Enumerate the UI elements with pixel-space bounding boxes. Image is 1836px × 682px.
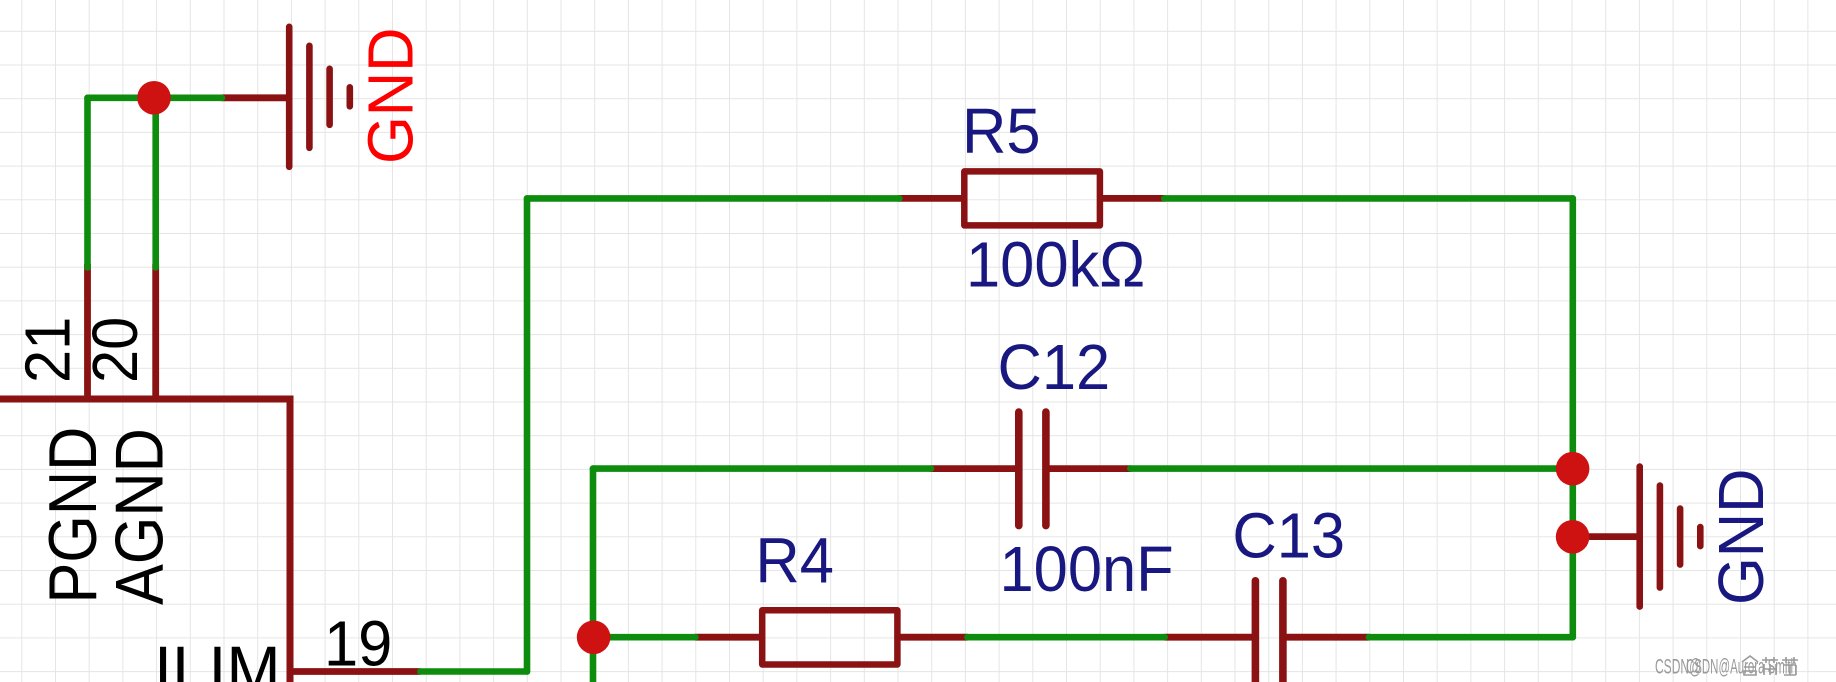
- pin 21: [84, 264, 91, 403]
- svg-text:AGND: AGND: [100, 428, 177, 605]
- pin 20: [152, 264, 159, 403]
- wire C12 left branch: [593, 469, 931, 682]
- wire from pin 19 up to R5: [420, 198, 899, 671]
- resistor R5: [899, 171, 1164, 225]
- watermark CSDN: [1655, 654, 1797, 679]
- svg-text:20: 20: [80, 317, 151, 383]
- svg-text:21: 21: [13, 317, 84, 383]
- svg-text:ILIM: ILIM: [154, 633, 281, 682]
- svg-text:100nF: 100nF: [1000, 534, 1174, 605]
- watermark CJK glyph 1: [1742, 656, 1758, 675]
- capacitor C13: [1165, 581, 1369, 682]
- resistor R4: [695, 610, 967, 664]
- wire R4 left: [594, 634, 696, 641]
- svg-text:C13: C13: [1232, 500, 1345, 571]
- wire C12 right to junction: [1130, 465, 1572, 472]
- svg-text:100kΩ: 100kΩ: [966, 229, 1145, 300]
- wire from R5 right to GND junction: [1164, 198, 1573, 637]
- watermark CJK glyph 2: [1762, 657, 1778, 675]
- junction dot right lower: [1556, 520, 1590, 554]
- svg-text:R4: R4: [755, 525, 834, 596]
- svg-text:PGND: PGND: [34, 427, 111, 604]
- junction dot R4 left: [577, 621, 611, 655]
- svg-text:19: 19: [324, 608, 392, 679]
- power symbol GND (top left): [222, 27, 350, 167]
- power symbol GND (right): [1589, 467, 1700, 607]
- svg-text:GND: GND: [1706, 468, 1777, 605]
- junction dot top left: [137, 81, 171, 115]
- watermark CJK glyph 3: [1782, 657, 1798, 675]
- svg-text:GND: GND: [355, 27, 426, 164]
- capacitor C12: [931, 412, 1130, 526]
- svg-text:C12: C12: [998, 332, 1111, 403]
- pin 19: [290, 668, 420, 675]
- wire net GND top: [88, 98, 223, 268]
- svg-text:CSDN@Aurora Smith: CSDN@Aurora Smith: [1686, 654, 1797, 679]
- svg-text:R5: R5: [962, 96, 1041, 167]
- wire R4 right to C13: [967, 634, 1164, 641]
- junction dot right upper: [1556, 452, 1590, 486]
- IC body (partial, bottom-left): [0, 396, 290, 682]
